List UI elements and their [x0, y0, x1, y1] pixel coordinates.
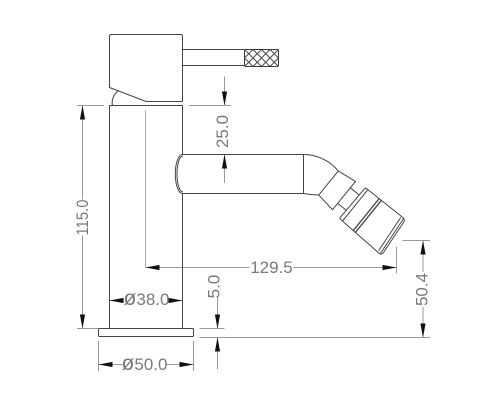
spout end vertical	[303, 155, 305, 194]
dim line 115.0	[82, 106, 84, 200]
ext line base-top left stub	[77, 328, 99, 330]
arrow 50.4 bottom (down)	[420, 324, 425, 338]
arrow 50.4 top (up)	[420, 241, 425, 255]
svg-text:129.5: 129.5	[250, 258, 293, 277]
neck bottom line	[338, 203, 347, 210]
svg-text:50.4: 50.4	[413, 273, 432, 306]
arrow 5.0 upper (down)	[215, 315, 220, 329]
arrow 5.0 lower (up)	[215, 338, 220, 352]
ext line head-bottom left	[77, 105, 104, 107]
ext line base-bottom long	[200, 337, 431, 339]
column top seam	[110, 105, 183, 107]
spray head band line 2	[355, 200, 381, 232]
knurl crosshatch fill	[245, 50, 279, 67]
column right edge upper	[182, 106, 184, 155]
spout top line	[183, 154, 304, 156]
ext stub 50.4 top	[403, 240, 431, 242]
dim line 129.5	[146, 267, 250, 269]
svg-text:ø50.0: ø50.0	[122, 351, 168, 374]
spout cap outer arc	[175, 155, 182, 194]
arrow 129.5 left (left)	[146, 265, 160, 270]
column left edge	[109, 106, 111, 329]
neck top line	[350, 188, 359, 195]
lever bottom line	[183, 65, 245, 67]
dim line ø50.0	[99, 364, 124, 366]
dim line 50.4	[422, 241, 424, 273]
segment bottom side	[317, 195, 334, 210]
spray head outline	[338, 187, 408, 255]
ext line head-bottom right	[189, 105, 231, 107]
spray head band line 1	[353, 199, 379, 231]
arrow 115 bottom (down)	[80, 315, 85, 329]
svg-text:ø38.0: ø38.0	[124, 287, 170, 310]
base plate	[99, 329, 194, 337]
elbow inner arc	[304, 194, 319, 196]
spray head tip face second line	[378, 219, 406, 253]
arrow ø50 left	[99, 362, 113, 367]
dim line 25.0 lower	[224, 155, 226, 184]
ext stub 129.5 right	[396, 247, 398, 274]
angled assembly	[314, 167, 408, 255]
dim line 25.0 upper	[224, 77, 226, 106]
handle head outline	[110, 35, 183, 102]
spout cap inner arc	[177, 156, 182, 191]
ext line ø50 right	[193, 341, 195, 371]
arrow ø50 right	[180, 362, 194, 367]
segment top side	[338, 169, 355, 184]
column centerline	[145, 110, 147, 268]
svg-text:115.0: 115.0	[73, 200, 92, 236]
arrow 25 bottom (up)	[222, 155, 227, 169]
dim line ø38.0	[110, 300, 125, 302]
spout bottom line	[183, 193, 304, 195]
elbow exit edge	[319, 171, 339, 195]
ext line ø50 left	[98, 341, 100, 371]
spray head back second line	[342, 190, 367, 221]
arrow 25 top (down)	[222, 92, 227, 106]
arrow ø38 right	[169, 298, 183, 303]
svg-text:25.0: 25.0	[213, 115, 232, 148]
pivot arc	[112, 91, 117, 105]
elbow outer arc	[304, 155, 339, 171]
lever top line	[183, 49, 245, 51]
arrow 129.5 right (right)	[383, 265, 397, 270]
dim line 5.0 upper	[217, 297, 219, 329]
ext line base-top right stub (5.0)	[200, 328, 225, 330]
svg-text:5.0: 5.0	[205, 275, 224, 299]
dim line 5.0 lower	[217, 338, 219, 370]
arrow 115 top (up)	[80, 106, 85, 120]
spray head tip inner line	[376, 218, 403, 251]
arrow ø38 left	[110, 298, 124, 303]
segment end edge	[333, 181, 356, 209]
column right edge lower	[182, 194, 184, 329]
knurl border	[245, 50, 279, 67]
